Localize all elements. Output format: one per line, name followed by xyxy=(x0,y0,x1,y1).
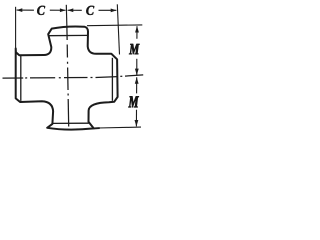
arrowhead M2 down xyxy=(135,120,139,127)
dimension line C1 left tail xyxy=(17,9,34,11)
horizontal centerline dash 2 xyxy=(30,77,55,79)
vertical centerline dash 2 xyxy=(66,45,68,58)
vertical centerline dot 2 xyxy=(67,94,69,96)
extension line bottom-right (for M) xyxy=(98,126,141,129)
band inner line right xyxy=(111,58,113,101)
dimension line C2 right tail xyxy=(99,9,117,11)
arrowhead C2 left xyxy=(68,8,74,12)
arrowhead C1 left xyxy=(17,8,23,12)
label M1 xyxy=(129,44,139,54)
band inner line bottom xyxy=(53,122,89,124)
vertical centerline dot 1 xyxy=(67,62,69,64)
label C1 xyxy=(37,6,45,15)
dimension line M1 upper stem xyxy=(136,26,138,39)
arrowhead C1 right xyxy=(60,8,66,12)
band inner line left xyxy=(20,55,22,101)
arrowhead C2 right xyxy=(111,9,117,13)
dimension line M2 upper stem xyxy=(136,77,138,93)
label C2 xyxy=(86,6,94,15)
label M2 xyxy=(128,96,138,107)
vertical centerline solid top segment (C dim tick) xyxy=(65,5,68,28)
vertical centerline dash 4 xyxy=(67,99,70,127)
horizontal centerline dash 1 xyxy=(3,77,24,79)
extension line right (for C) xyxy=(117,4,119,54)
arrowhead M1 down xyxy=(135,69,139,76)
bottom face overhang right xyxy=(94,127,100,129)
horizontal centerline dot 4 xyxy=(120,75,122,77)
dimension line M1 lower stem xyxy=(136,59,138,75)
horizontal centerline dot 3 xyxy=(91,76,93,78)
horizontal centerline dash 3 xyxy=(64,77,88,79)
extension line top-right (for M) xyxy=(87,24,142,27)
vertical centerline dash 3 xyxy=(67,68,69,91)
dimension line M2 lower stem xyxy=(135,110,137,127)
band inner line top xyxy=(49,34,88,36)
horizontal centerline dash 5 xyxy=(125,75,143,76)
arrowhead M2 up xyxy=(135,77,139,84)
horizontal centerline dot 2 xyxy=(59,77,61,79)
arrowhead M1 up xyxy=(135,26,139,33)
horizontal centerline dash 4 xyxy=(96,76,118,79)
vertical centerline dash 1 xyxy=(66,28,68,41)
horizontal centerline dot 1 xyxy=(25,77,27,79)
body outline of cross fitting xyxy=(16,26,118,129)
dimension line C1 right tail xyxy=(50,9,66,11)
dimension line C2 left tail xyxy=(68,9,82,11)
extension line left (for C) xyxy=(15,7,17,48)
